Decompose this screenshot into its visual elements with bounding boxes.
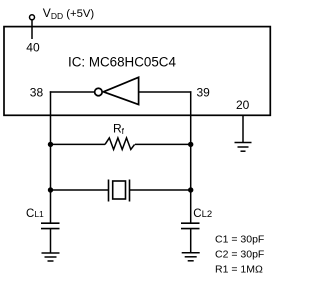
resistor Rf zigzag: [105, 138, 135, 150]
capacitor CL1 bottom plate: [41, 228, 60, 230]
svg-text:CL2: CL2: [193, 208, 212, 220]
node D junction dot right crystal: [188, 187, 193, 192]
wire Rf right: [135, 143, 191, 145]
svg-text:38: 38: [30, 86, 44, 100]
capacitor CL1 top plate: [41, 222, 60, 224]
capacitor CL2 top plate: [181, 222, 200, 224]
svg-text:40: 40: [26, 41, 40, 55]
svg-text:R1 = 1MΩ: R1 = 1MΩ: [215, 264, 263, 276]
svg-text:C2 = 30pF: C2 = 30pF: [215, 249, 264, 261]
wire pin 20: [242, 116, 244, 143]
wire inverter output to pin 39: [139, 91, 192, 93]
crystal Y1 left plate: [108, 180, 110, 202]
wire pin 38 horizontal to inverter input: [50, 91, 94, 93]
crystal Y1 right plate: [129, 180, 131, 202]
wire Rf left: [51, 143, 106, 145]
VDD terminal: [30, 15, 35, 20]
wire pin 38 vertical: [50, 91, 52, 223]
node B junction dot right Rf: [188, 142, 193, 147]
ground at CL1: [42, 253, 60, 261]
svg-text:Rf: Rf: [113, 122, 125, 137]
svg-text:20: 20: [236, 98, 250, 112]
ground at CL2: [182, 253, 200, 261]
node A junction dot left Rf: [48, 142, 53, 147]
capacitor CL2 bottom plate: [181, 228, 200, 230]
svg-text:IC: MC68HC05C4: IC: MC68HC05C4: [68, 54, 176, 69]
inverter U2 bubble: [95, 88, 103, 96]
IC box U1 MC68HC05C4: [4, 27, 270, 116]
svg-text:39: 39: [197, 86, 211, 100]
ground at pin 20: [235, 143, 252, 152]
svg-text:CL1: CL1: [26, 208, 44, 220]
svg-text:C1 = 30pF: C1 = 30pF: [215, 234, 264, 246]
crystal Y1 body: [113, 181, 126, 199]
wire pin 39 vertical: [190, 91, 192, 223]
wire crystal left: [51, 189, 109, 191]
wire pin 40: [31, 20, 33, 39]
node C junction dot left crystal: [48, 187, 53, 192]
wire CL2 to ground: [190, 229, 192, 253]
wire CL1 to ground: [50, 229, 52, 253]
inverter U2 triangle: [103, 77, 138, 104]
svg-text:VDD (+5V): VDD (+5V): [43, 6, 95, 21]
wire crystal right: [130, 189, 191, 191]
